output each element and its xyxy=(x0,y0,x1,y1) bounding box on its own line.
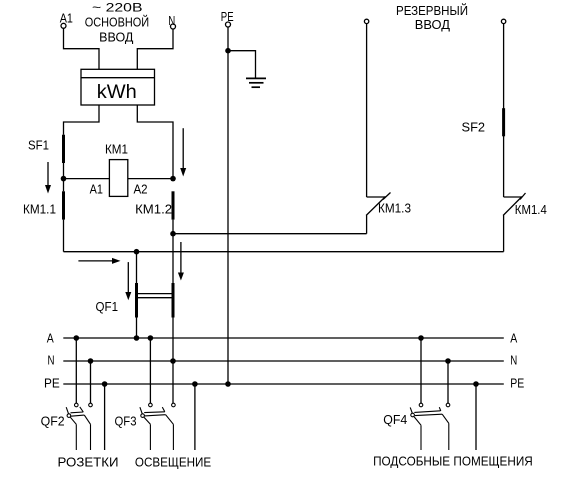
breaker SF1 xyxy=(62,135,65,163)
svg-text:А2: А2 xyxy=(134,183,148,197)
node bus N to QF4 xyxy=(445,358,451,364)
breaker QF2 xyxy=(66,403,92,450)
svg-text:N: N xyxy=(510,354,517,368)
svg-text:ПОДСОБНЫЕ ПОМЕЩЕНИЯ: ПОДСОБНЫЕ ПОМЕЩЕНИЯ xyxy=(373,454,533,469)
terminal N xyxy=(171,24,176,29)
terminal reserve right xyxy=(501,19,505,23)
svg-text:~ 220В: ~ 220В xyxy=(92,1,143,15)
terminal A1 xyxy=(61,23,66,28)
node QF1 right to bus N xyxy=(170,358,176,364)
breaker QF1 right pole xyxy=(172,283,175,318)
svg-text:QF3: QF3 xyxy=(115,415,137,429)
svg-text:КМ1.4: КМ1.4 xyxy=(515,203,547,217)
wire bus N to QF4 xyxy=(447,361,449,403)
svg-text:ВВОД: ВВОД xyxy=(415,18,451,32)
wire KM1.3 rail xyxy=(173,233,367,235)
wire QF1 left pole bottom xyxy=(136,318,138,339)
bus A xyxy=(63,337,504,339)
node KM1.2 KM1.3 junction xyxy=(170,231,176,237)
svg-text:QF4: QF4 xyxy=(383,413,407,427)
breaker SF2 xyxy=(502,108,505,136)
breaker QF1 left pole xyxy=(135,283,138,318)
node bus PE to utility xyxy=(473,381,479,387)
svg-text:А: А xyxy=(47,332,55,346)
wire reserve left down xyxy=(366,24,368,197)
contact KM1.2 xyxy=(172,191,175,219)
svg-text:КМ1.1: КМ1.1 xyxy=(23,203,56,217)
node bus A to QF3 xyxy=(148,335,154,341)
meter kWh box xyxy=(81,69,155,105)
wire PE vertical xyxy=(227,27,229,384)
arrow right flow xyxy=(78,258,120,264)
wire PE lighting down xyxy=(194,384,196,450)
svg-text:КМ1.3: КМ1.3 xyxy=(378,202,411,216)
arrow down left of QF1 xyxy=(125,262,131,300)
wire N to kWh xyxy=(137,29,173,69)
svg-text:А: А xyxy=(510,332,518,346)
node bus N to QF2 xyxy=(88,358,94,364)
node bus A to QF2 xyxy=(74,335,80,341)
svg-text:QF2: QF2 xyxy=(41,415,65,429)
coil KM1 box xyxy=(109,160,127,197)
node bus PE to lighting xyxy=(192,381,198,387)
svg-text:QF1: QF1 xyxy=(96,300,119,314)
svg-text:КМ1.2: КМ1.2 xyxy=(135,203,172,217)
bus N xyxy=(63,360,504,362)
wire bottom rail to QF1 xyxy=(64,251,504,253)
svg-text:ОСВЕЩЕНИЕ: ОСВЕЩЕНИЕ xyxy=(135,454,212,469)
svg-text:SF2: SF2 xyxy=(462,121,486,135)
svg-text:ВВОД: ВВОД xyxy=(99,30,134,44)
ground symbol xyxy=(246,78,266,87)
wire PE sockets down xyxy=(104,384,106,450)
wire QF1 left pole top xyxy=(136,252,138,283)
wire bus A to QF4 xyxy=(420,338,422,403)
terminal PE xyxy=(226,22,231,27)
node QF1 to bus A xyxy=(134,335,140,341)
node bus A to QF4 xyxy=(418,335,424,341)
breaker QF4 xyxy=(410,403,450,450)
svg-text:SF1: SF1 xyxy=(28,139,49,153)
terminal reserve left xyxy=(364,19,368,23)
wire SF1 to node A1coil xyxy=(63,163,65,191)
svg-text:ОСНОВНОЙ: ОСНОВНОЙ xyxy=(85,14,150,29)
contact KM1.3 xyxy=(366,193,390,234)
node PE ground branch xyxy=(225,48,231,54)
wire bus N to QF2 xyxy=(90,361,92,403)
wire kWh right output xyxy=(137,105,173,179)
svg-text:КМ1: КМ1 xyxy=(105,143,128,157)
contact KM1.1 xyxy=(62,191,65,219)
svg-text:N: N xyxy=(168,14,175,28)
wire coil A1 side xyxy=(64,178,110,180)
wire coil A2 side xyxy=(128,178,173,180)
svg-text:N: N xyxy=(48,354,55,368)
svg-text:А1: А1 xyxy=(90,183,103,197)
arrow down right of QF1 xyxy=(178,242,184,281)
node coil A2 junction xyxy=(170,176,176,182)
wire KM1.1 down to bottom rail xyxy=(63,220,65,252)
svg-text:РОЗЕТКИ: РОЗЕТКИ xyxy=(58,454,119,469)
wire QF1 right pole bottom xyxy=(172,318,174,404)
arrow down left of KM1.1 xyxy=(45,162,51,194)
svg-text:kWh: kWh xyxy=(97,82,137,103)
node QF1 left junction xyxy=(134,249,140,255)
wire bus A to QF2 xyxy=(75,338,77,403)
contact KM1.4 xyxy=(503,193,525,252)
wire bus A to QF3 xyxy=(149,338,151,403)
node coil A1 junction xyxy=(61,176,67,182)
arrow down right branch xyxy=(180,128,186,176)
node bus PE to sockets xyxy=(102,381,108,387)
wire to ground xyxy=(228,51,256,79)
wire KM1.2 down to QF1 xyxy=(172,220,174,283)
breaker QF3 xyxy=(140,403,175,450)
breaker QF1 link lines xyxy=(137,294,174,298)
node PE main to bus PE xyxy=(225,381,231,387)
svg-text:PE: PE xyxy=(44,377,60,391)
wire reserve right down xyxy=(503,24,505,197)
svg-text:РЕЗЕРВНЫЙ: РЕЗЕРВНЫЙ xyxy=(396,3,468,18)
wire PE utility down xyxy=(475,384,477,450)
bus PE xyxy=(63,383,504,385)
meter kWh header line xyxy=(81,77,155,79)
wire kWh left output xyxy=(64,105,100,135)
svg-text:PE: PE xyxy=(510,377,524,391)
wire A1 to kWh xyxy=(64,28,100,69)
